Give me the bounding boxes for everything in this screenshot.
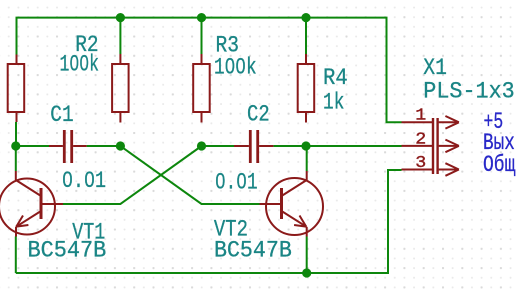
pin 1 of X1: [402, 116, 459, 129]
capacitor C1: [49, 130, 87, 163]
svg-text:100k: 100k: [60, 52, 100, 78]
junction: node A: [11, 141, 20, 150]
svg-text:1: 1: [415, 107, 426, 126]
svg-text:Общ: Общ: [483, 152, 515, 178]
svg-text:1k: 1k: [323, 89, 344, 115]
svg-text:R4: R4: [323, 65, 348, 91]
svg-text:PLS-1x3: PLS-1x3: [423, 79, 514, 105]
connector X1 body bars: [433, 118, 438, 174]
pin 2 of X1: [402, 140, 459, 153]
junction: VT2 emitter / bottom rail: [302, 268, 311, 277]
capacitor C2: [234, 130, 273, 163]
transistor VT2 (NPN, base on left): [260, 171, 324, 237]
wire: C2 right to node D (R4 bottom): [273, 145, 306, 147]
wire: node D to connector pin2: [306, 145, 402, 147]
wire: VT1 collector to node A: [15, 146, 17, 171]
wire: bottom ground rail: [16, 170, 402, 273]
junction: node C: [197, 141, 206, 150]
svg-text:C1: C1: [50, 102, 73, 128]
wire: node A to C1 left: [16, 145, 49, 147]
junction: top rail / R2: [116, 13, 125, 22]
wire: VT1 emitter to bottom rail: [15, 237, 17, 274]
svg-text:100k: 100k: [214, 54, 257, 80]
wire: VT2 collector to node D: [306, 146, 308, 171]
transistor VT1 (NPN, base on right): [0, 171, 63, 237]
junction: top rail / R3: [197, 13, 206, 22]
svg-text:BC547B: BC547B: [28, 238, 107, 264]
pin 3 of X1: [402, 163, 459, 176]
wire: R3 top lead to top rail: [201, 18, 203, 54]
emitter arrow of VT2: [294, 216, 306, 227]
junction: node D: [301, 141, 310, 150]
wire: diagonal node B to VT2 base: [120, 146, 259, 204]
resistor R3: [193, 54, 210, 123]
wire: diagonal node C to VT1 base: [63, 146, 202, 204]
resistor R1 (value off-screen): [8, 55, 25, 123]
wire: C1 right to node B (R2 bottom): [87, 145, 121, 147]
wire: R1 bottom to node A: [15, 122, 17, 146]
svg-text:BC547B: BC547B: [214, 238, 292, 264]
wire: node C to C2 left: [202, 145, 235, 147]
emitter arrow of VT1: [16, 216, 28, 227]
resistor R2: [112, 54, 129, 123]
wire: VT2 emitter to bottom rail: [306, 237, 308, 274]
svg-text:3: 3: [415, 154, 426, 173]
wire: R4 top lead to top rail: [305, 18, 307, 54]
resistor R4: [298, 54, 315, 123]
wire: top power rail from R1 top to connector pin1 drop: [17, 18, 402, 123]
zero-counter masks (font cleanup): [66, 60, 243, 183]
svg-text:X1: X1: [423, 55, 447, 81]
svg-text:C2: C2: [247, 102, 270, 128]
svg-text:2: 2: [415, 130, 426, 149]
junction: node B: [116, 141, 125, 150]
junction: top rail / R4: [301, 13, 310, 22]
wire: R2 top lead to top rail: [119, 18, 121, 54]
